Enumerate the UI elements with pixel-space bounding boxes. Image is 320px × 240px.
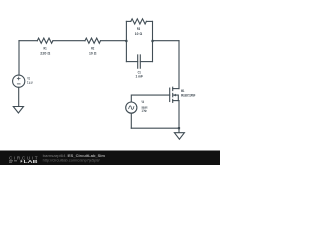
svg-text:220 Ω: 220 Ω (40, 52, 50, 56)
svg-text:7.4 V: 7.4 V (27, 81, 33, 85)
capacitor C1 right plate (139, 55, 141, 68)
wire R2 to left node (101, 40, 127, 42)
transistor M1 drain lead (173, 88, 179, 90)
wire V4 bottom vertical (130, 113, 132, 128)
wire R3 branch right lead (146, 20, 152, 22)
voltage source V4 sine symbol (129, 106, 134, 109)
wire bottom horizontal V4 to source node (131, 127, 179, 129)
svg-text:R3: R3 (137, 27, 140, 31)
resistor R2 zigzag (85, 38, 101, 43)
svg-text:LAB: LAB (24, 159, 38, 164)
capacitor C1 left plate (137, 55, 139, 68)
wire right node to drain corner (153, 40, 180, 42)
svg-text:M1: M1 (181, 89, 184, 93)
transistor M1 channel bottom segment (172, 99, 174, 102)
svg-text:R2: R2 (91, 47, 94, 51)
ground symbol left (13, 107, 23, 114)
transistor M1 channel middle segment (172, 93, 174, 96)
wire left vertical of parallel block (125, 21, 127, 61)
V1 plus sign (17, 77, 20, 80)
voltage source V1 circle (13, 75, 25, 87)
V1 minus sign (17, 83, 20, 85)
svg-text:1 Hz: 1 Hz (142, 109, 147, 113)
wire gate to V4 (131, 95, 169, 102)
svg-text:IRLB8721PBF: IRLB8721PBF (181, 94, 196, 98)
resistor R1 zigzag (37, 38, 53, 43)
svg-text:V4: V4 (142, 100, 145, 104)
wire source vertical to ground (178, 101, 180, 133)
wire C1 branch left lead (126, 61, 137, 63)
transistor M1 body lead (173, 95, 178, 101)
voltage source V4 circle (126, 102, 137, 113)
transistor M1 arrow (173, 94, 176, 97)
svg-text:10 Ω: 10 Ω (89, 52, 96, 56)
wire R1 to R2 (53, 40, 85, 42)
svg-text:http://circuitlab.com/c/ahp7je: http://circuitlab.com/c/ahp7je5p8/ (43, 158, 100, 162)
wire V1 top vertical (18, 41, 20, 75)
wire drain vertical (178, 41, 180, 89)
transistor M1 channel top segment (172, 87, 174, 90)
transistor M1 source lead (173, 100, 179, 102)
footer bar (0, 151, 220, 166)
node source-ground junction dot (178, 127, 180, 129)
ground symbol right (174, 133, 184, 140)
footer logo bolt (20, 159, 23, 163)
footer logo dashes (9, 161, 17, 162)
node left junction dot (125, 40, 127, 42)
transistor M1 gate bar (169, 88, 171, 101)
node right junction dot (151, 40, 153, 42)
wire top-left horizontal from corner to R1 (19, 40, 37, 42)
svg-text:R1: R1 (44, 47, 47, 51)
svg-text:1 mF: 1 mF (135, 74, 143, 78)
wire C1 branch right lead (140, 61, 152, 63)
resistor R3 zigzag (131, 19, 147, 24)
wire R3 branch left lead (126, 20, 130, 22)
wire V1 bottom vertical (18, 87, 20, 106)
wire right vertical of parallel block (152, 21, 154, 61)
svg-text:10 Ω: 10 Ω (135, 32, 142, 36)
